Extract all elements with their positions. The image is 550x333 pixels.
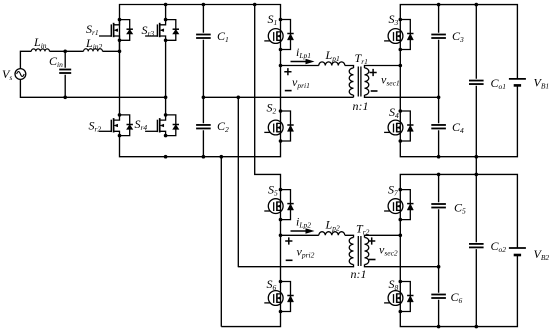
battery VB2 [509,248,526,255]
node: Sr4 source on bottom rail [164,155,168,159]
inductor Lin2 [84,49,103,52]
wire: output link column Co1 to Co2 [475,157,477,327]
node: C5 top on lower output rail [437,173,441,177]
node: link column on output bottom rail [475,155,479,159]
wire: C6 column [438,267,440,327]
current arrow i_Lp1 [291,59,315,64]
wire: input top wire Lin2 to bridge left leg [103,50,120,52]
inductor Lp2 [319,232,345,236]
label vpri2 minus [286,259,293,261]
node: S5-S6 midpoint primary tap [279,234,283,238]
label vpri1 plus [284,68,291,75]
capacitor Cin [59,70,71,74]
wire: C5 column [438,174,440,266]
node: secondary1 top at S3-S4 leg [399,64,403,68]
wire: S6 source to lower-left bottom rail [221,312,280,327]
capacitor C6 [431,295,446,299]
capacitor Co2 [469,244,484,248]
wire: phase2 primary return feed [237,97,239,266]
transistor S5 [264,188,293,222]
label vsec2 plus [368,237,375,244]
node: phase2 primary return branch [237,96,241,100]
transformer Tr1 secondary winding [365,68,369,95]
wire: Lp2 to Tr2 primary top [345,235,354,237]
node: Co1 top on output rail [475,3,479,7]
node: C3 top on output rail [437,3,441,7]
transistor Sr4 [145,113,179,137]
node: phase2 bottom feed on bottom rail [220,155,224,159]
inductor Lin [31,49,49,51]
node: C4 bottom on output bottom rail [437,155,441,159]
wire: C3 column [438,5,440,98]
transformer Tr1 primary winding [349,68,353,95]
wire: C1 column [202,5,204,98]
label vpri2 plus [285,237,292,244]
wire: bridge right leg Sr3 drain [165,5,167,20]
wire: output1 bottom rail [400,85,517,156]
wire: input bottom rail [20,79,165,97]
transistor S1 [264,18,293,52]
node: input filter top junction [63,50,67,54]
wire: Cin column [64,51,66,97]
node: Sr3 drain on top rail [164,3,168,7]
transformer Tr2 core [358,236,361,266]
wire: S5-S6 leg [280,220,282,282]
wire: Tr2 secondary bottom to C5-C6 node [365,265,439,267]
transformer Tr2 primary winding [349,238,353,265]
wire: bridge left leg Sr1-Sr2 [119,40,121,115]
transistor S4 [384,109,413,143]
node: C6 bottom on lower output bottom rail [437,325,441,329]
label vsec1 plus [370,69,377,76]
wire: Lp1 to Tr1 primary top [345,66,354,69]
label vsec1 minus [371,90,378,92]
capacitor C5 [431,204,446,208]
AC source Vs [15,69,26,80]
node: input to bridge left midpoint [118,50,122,54]
wire: C1-C2 midpoint wire to Tr1 primary [203,96,353,98]
transistor Sr3 [145,18,179,42]
wire: S7-S8 leg [399,220,401,282]
node: input to bridge right midpoint [164,96,168,100]
wire: Tr2 secondary top lead to S7-S8 node [365,235,401,237]
wire: main DC bus top rail [120,5,281,52]
node: secondary2 top at S7-S8 leg [399,234,403,238]
transformer Tr1 core [358,67,361,97]
wire: lower output bottom rail [400,255,517,327]
wire: Tr1 secondary bottom to C3-C4 node [365,95,439,97]
wire: Tr2 primary bottom return [238,265,354,267]
transformer Tr2 secondary winding [365,238,369,265]
wire: S3-S4 leg [399,50,401,112]
capacitor C3 [431,35,446,39]
wire: input source top lead [20,51,31,68]
wire: phase2 primary wire to Lp2 [281,234,319,236]
wire: Co1 column [475,5,477,157]
current arrow i_Lp2 [291,228,315,233]
node: C1-C2 midpoint [202,96,206,100]
node: Co2 bottom on lower output bottom rail [475,325,479,329]
wire: C2 column [202,97,204,157]
wire: input top wire Lin to Cin node [50,50,84,52]
node: C1 top on top rail [202,3,206,7]
capacitor C4 [431,125,446,129]
transistor S8 [384,280,413,314]
transistor S6 [264,280,293,314]
wire: phase2 bottom feed [220,157,222,327]
node: phase2 feed on top rail [253,3,257,7]
transistor S2 [264,109,293,143]
wire: lower output top rail [400,174,517,248]
wire: S1-S2 leg [280,50,282,112]
wire: output1 top rail [400,5,517,79]
label vpri1 minus [285,90,292,92]
label vsec2 minus [369,259,376,261]
transistor Sr2 [99,113,133,137]
node: secondary2 bottom at C5-C6 junction [437,265,441,269]
svg-text:n:1: n:1 [353,99,369,113]
battery VB1 [509,79,526,86]
node: link column on lower output top rail [475,173,479,177]
wire: phase1 primary wire to Lp1 [281,65,319,67]
node: Cin bottom [63,96,67,100]
wire: Tr1 secondary top lead to S3-S4 node [365,66,401,69]
wire: bridge right leg Sr3-Sr4 [165,40,167,115]
transistor S7 [384,188,413,222]
capacitor C2 [196,125,211,129]
wire: Tr1 primary bottom lead [353,95,355,97]
wire: main DC bus bottom rail [120,136,281,157]
node: S1-S2 midpoint primary tap [279,64,283,68]
inductor Lp1 [319,62,345,66]
capacitor Co1 [469,81,484,85]
capacitor C1 [196,35,211,39]
node: secondary1 bottom at C3-C4 junction [437,96,441,100]
node: C2 bottom on bottom rail [202,155,206,159]
transistor S3 [384,18,413,52]
wire: C4 column [438,97,440,157]
wire: phase2 top feed from top rail [255,5,281,190]
transistor Sr1 [99,18,133,42]
svg-text:n:1: n:1 [351,267,367,281]
